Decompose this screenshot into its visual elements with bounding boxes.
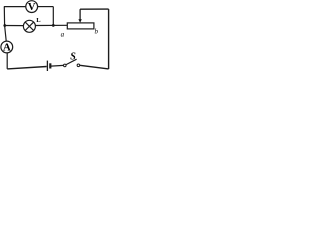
wire voltmeter branch vertical [52, 7, 54, 26]
svg-text:V: V [28, 2, 36, 13]
rheostat R [67, 23, 94, 29]
svg-text:L: L [36, 17, 41, 24]
wire switch right to bottom corner [80, 65, 109, 69]
wire battery to switch [51, 64, 64, 67]
wiper arrow [78, 9, 81, 23]
node junction left (lamp branch tap) [3, 24, 6, 27]
wire right vertical [108, 9, 110, 69]
svg-text:S: S [70, 52, 76, 63]
wire lamp right to rheostat [35, 24, 67, 26]
svg-text:a: a [61, 30, 65, 38]
wire lamp left [5, 25, 24, 27]
wire voltmeter left [4, 6, 26, 8]
wire left vertical (top corner to ammeter) [4, 7, 6, 41]
wire bottom left [7, 67, 47, 69]
battery [47, 61, 50, 71]
svg-text:A: A [3, 42, 11, 54]
node junction right [52, 24, 55, 27]
svg-text:b: b [95, 28, 99, 36]
wire voltmeter right [38, 6, 54, 8]
ammeter A [1, 41, 13, 54]
wire top [80, 8, 109, 10]
switch S [64, 52, 80, 67]
wire ammeter bottom vertical [6, 53, 8, 69]
lamp L [23, 17, 41, 32]
voltmeter V [26, 1, 38, 13]
